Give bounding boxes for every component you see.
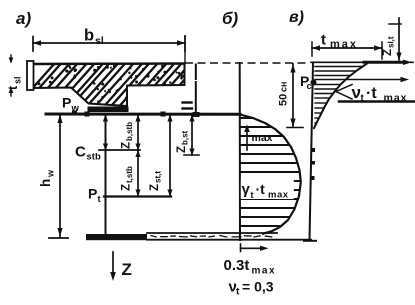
- svg-text:P: P: [88, 186, 97, 202]
- svg-text:max: max: [330, 39, 358, 51]
- svg-text:b,st: b,st: [181, 130, 190, 145]
- svg-text:sl: sl: [95, 35, 104, 47]
- svg-text:= 0,3: = 0,3: [242, 279, 274, 295]
- svg-text:max: max: [252, 266, 277, 277]
- svg-text:t,stb: t,stb: [125, 166, 134, 183]
- svg-text:max: max: [252, 132, 273, 144]
- svg-text:0.3t: 0.3t: [224, 257, 250, 274]
- svg-text:Z: Z: [382, 49, 394, 56]
- svg-text:Z: Z: [121, 142, 133, 149]
- svg-text:st,t: st,t: [154, 171, 163, 183]
- svg-text:Z: Z: [121, 184, 133, 191]
- svg-text:C: C: [75, 144, 86, 161]
- svg-text:w: w: [46, 169, 56, 178]
- svg-text:Z: Z: [176, 146, 188, 153]
- svg-text:sl: sl: [13, 76, 23, 84]
- svg-text:t: t: [251, 190, 254, 200]
- svg-text:Z: Z: [122, 260, 132, 279]
- svg-text:b,stb: b,stb: [125, 122, 134, 141]
- svg-text:γ: γ: [242, 181, 251, 198]
- svg-text:·t: ·t: [256, 181, 266, 197]
- svg-text:б): б): [222, 9, 239, 28]
- svg-text:sl,t: sl,t: [387, 36, 396, 48]
- svg-text:в): в): [289, 9, 304, 26]
- svg-text:max: max: [268, 190, 289, 201]
- svg-text:b: b: [84, 27, 94, 45]
- svg-text:Z: Z: [149, 184, 161, 191]
- svg-text:а): а): [16, 9, 31, 28]
- svg-text:50: 50: [278, 94, 290, 106]
- svg-text:max: max: [384, 92, 408, 104]
- svg-text:t: t: [321, 32, 326, 49]
- svg-text:сн: сн: [279, 82, 289, 92]
- svg-text:stb: stb: [87, 152, 101, 163]
- svg-text:P: P: [62, 95, 71, 111]
- svg-text:·t: ·t: [366, 85, 377, 102]
- svg-text:h: h: [38, 179, 53, 187]
